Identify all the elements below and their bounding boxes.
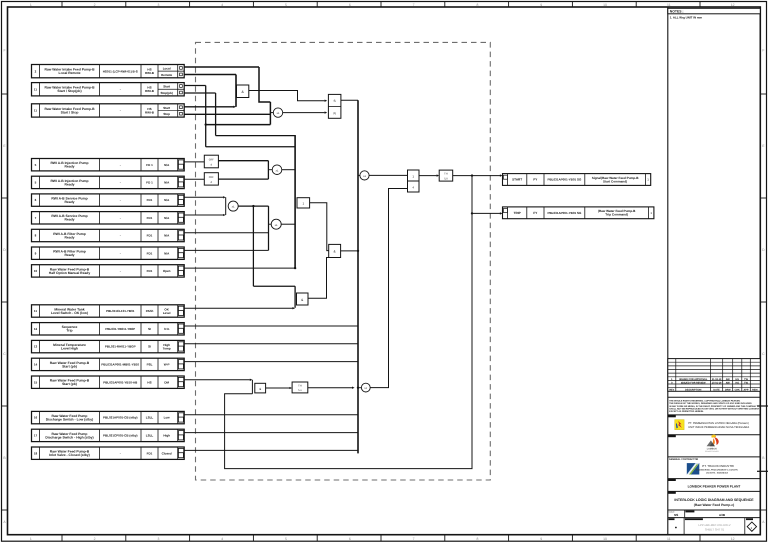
svg-text:EXCEPT AS PERMITTED HEREIN.: EXCEPT AS PERMITTED HEREIN. bbox=[669, 410, 704, 413]
svg-text:Open: Open bbox=[163, 269, 171, 273]
svg-text:LPP-LBK-MET-ICD-DW-V: LPP-LBK-MET-ICD-DW-V bbox=[698, 523, 730, 527]
wire bracket into OR U7 bbox=[268, 206, 270, 250]
svg-text:18: 18 bbox=[34, 451, 38, 455]
wire bracket into OR U6 bbox=[225, 197, 227, 215]
arrowhead R input bbox=[325, 111, 328, 113]
svg-text:12: 12 bbox=[731, 3, 735, 7]
svg-text:3: 3 bbox=[157, 537, 159, 541]
input block row1: RWI pump-B local/remote selector bbox=[32, 65, 185, 78]
svg-text:-: - bbox=[120, 181, 121, 185]
input block row8: filter pump A ready bbox=[32, 229, 185, 241]
wire stub into OR U13 bbox=[358, 174, 360, 176]
svg-text:OFF: OFF bbox=[209, 158, 215, 161]
svg-text:-: - bbox=[120, 216, 121, 220]
svg-text:Discharge Switch - Low (stby): Discharge Switch - Low (stby) bbox=[46, 418, 94, 422]
svg-text:PBL031AP001-YB10-AB: PBL031AP001-YB10-AB bbox=[103, 380, 138, 384]
svg-text:REM: REM bbox=[752, 389, 757, 392]
svg-text:N/A: N/A bbox=[164, 181, 170, 185]
vertical rail R1 lower segment bbox=[294, 286, 296, 308]
svg-text:Start Command): Start Command) bbox=[603, 179, 627, 183]
wire T1 out bbox=[218, 160, 268, 162]
wire into trip command block bbox=[472, 212, 500, 214]
svg-text:LSLL: LSLL bbox=[146, 434, 154, 438]
arrowhead row15 bbox=[250, 379, 253, 381]
svg-text:8: 8 bbox=[476, 3, 478, 7]
svg-text:3: 3 bbox=[157, 3, 159, 7]
svg-text:15-01-19: 15-01-19 bbox=[712, 382, 722, 385]
project box bbox=[668, 479, 761, 489]
svg-text:LOMBOK PEAKER POWER PLANT: LOMBOK PEAKER POWER PLANT bbox=[688, 484, 741, 488]
svg-text:Remote: Remote bbox=[161, 73, 172, 77]
notes header bar bbox=[668, 8, 761, 14]
svg-text:Start / Stop: Start / Stop bbox=[61, 110, 79, 114]
svg-text:PBL031CP001-CB (stby): PBL031CP001-CB (stby) bbox=[103, 434, 138, 438]
input block row9: filter pump B ready bbox=[32, 247, 185, 259]
svg-text:TH: TH bbox=[298, 384, 302, 387]
wire row8 to bracket bbox=[184, 232, 269, 234]
svg-text:FD1: FD1 bbox=[147, 251, 153, 255]
wire row13 to rail R2 bbox=[184, 343, 358, 345]
input block row11: mineral water tank level OK bbox=[32, 305, 185, 317]
svg-text:Start (pb): Start (pb) bbox=[62, 364, 77, 368]
OR gate U13 bbox=[360, 171, 369, 180]
wire into rail R1 lower segment bbox=[253, 285, 295, 287]
svg-text:OFF: OFF bbox=[209, 176, 215, 179]
svg-text:PSL: PSL bbox=[147, 363, 153, 367]
svg-text:Stop: Stop bbox=[163, 112, 170, 116]
svg-text:11: 11 bbox=[34, 309, 38, 313]
on-delay timer T3 bbox=[292, 382, 308, 393]
AND gate U8 bbox=[297, 293, 309, 305]
left/right border ruler ticks bbox=[2, 93, 8, 95]
svg-text:17: 17 bbox=[34, 434, 38, 438]
svg-text:FD1: FD1 bbox=[147, 234, 153, 238]
wire row18 to rail R2 bbox=[184, 449, 358, 451]
input block row13: temperature high bbox=[32, 340, 185, 352]
svg-text:1. ALL Wrg UNIT IN mm: 1. ALL Wrg UNIT IN mm bbox=[670, 15, 703, 19]
svg-text:Ready: Ready bbox=[64, 235, 74, 239]
svg-text:IN ANY FORM OR MEDIA, IS THE R: IN ANY FORM OR MEDIA, IS THE RIGHT, PROP… bbox=[669, 405, 757, 408]
svg-text:CHK: CHK bbox=[735, 389, 740, 392]
wire stub U7 bbox=[269, 223, 272, 225]
svg-text:-: - bbox=[120, 269, 121, 273]
svg-text:Start / Stop(pb): Start / Stop(pb) bbox=[57, 89, 81, 93]
svg-text:ISSUED FOR REVIEW: ISSUED FOR REVIEW bbox=[681, 382, 706, 385]
svg-text:PT. TRACON INDUSTRI: PT. TRACON INDUSTRI bbox=[702, 464, 734, 468]
wire row7 bbox=[184, 214, 223, 216]
svg-text:15: 15 bbox=[34, 380, 38, 384]
svg-text:11: 11 bbox=[34, 87, 38, 91]
junction node feedback tap bbox=[471, 174, 473, 176]
input block row4: injection pump A ready bbox=[32, 159, 185, 171]
svg-text:HS: HS bbox=[736, 382, 740, 385]
svg-text:PBL031-RH011-YBGP: PBL031-RH011-YBGP bbox=[105, 345, 136, 349]
svg-text:9: 9 bbox=[540, 3, 542, 7]
svg-text:N/A: N/A bbox=[164, 198, 170, 202]
svg-text:Local: Local bbox=[163, 67, 171, 71]
svg-text:-: - bbox=[120, 234, 121, 238]
input block row14: feed pump-B start pb bbox=[32, 358, 185, 370]
svg-text:Start: Start bbox=[163, 85, 170, 89]
svg-text:NS: NS bbox=[674, 513, 678, 517]
svg-text:(Raw Water Feed Pump-c): (Raw Water Feed Pump-c) bbox=[694, 503, 735, 507]
svg-text:11: 11 bbox=[667, 537, 671, 541]
svg-text:INTERLOCK LOGIC DIAGRAM AND SE: INTERLOCK LOGIC DIAGRAM AND SEQUENCE bbox=[674, 498, 754, 502]
wire row17 to rail R2 bbox=[184, 432, 358, 434]
OR gate U5 bbox=[272, 165, 282, 175]
wire row2 stop bbox=[184, 92, 216, 94]
arrowhead S input bbox=[325, 100, 328, 102]
wire stub into OR U3 bbox=[270, 112, 273, 114]
wire vertical rail VR1 bbox=[269, 102, 271, 125]
svg-text:Level: Level bbox=[163, 311, 171, 315]
off-delay timer T2 bbox=[204, 173, 218, 185]
svg-text:2: 2 bbox=[94, 537, 96, 541]
svg-text:Discharge Switch - High (stby): Discharge Switch - High (stby) bbox=[45, 435, 93, 439]
svg-text:Level Switch - OK (low): Level Switch - OK (low) bbox=[51, 311, 88, 315]
wire corner down to OR-gate rail bbox=[259, 67, 270, 102]
svg-text:12: 12 bbox=[34, 327, 38, 331]
svg-text:F: F bbox=[762, 49, 764, 53]
svg-text:HS: HS bbox=[736, 378, 740, 381]
svg-text:PBL011CL101-YB01: PBL011CL101-YB01 bbox=[106, 309, 135, 313]
svg-text:N/A: N/A bbox=[164, 234, 170, 238]
wire U12 output up to counter 4 input bbox=[370, 189, 407, 388]
wire stub U5 bbox=[268, 169, 272, 171]
svg-text:12: 12 bbox=[731, 537, 735, 541]
wire row4 into T1 bbox=[184, 161, 204, 163]
svg-text:Start (pb): Start (pb) bbox=[62, 382, 77, 386]
svg-text:16: 16 bbox=[34, 416, 38, 420]
svg-text:DM: DM bbox=[164, 380, 169, 384]
svg-text:F: F bbox=[3, 49, 5, 53]
svg-text:SHALL NOT BE REPRODUCED IN ANY: SHALL NOT BE REPRODUCED IN ANY WAY, OR I… bbox=[669, 407, 759, 410]
svg-text:4: 4 bbox=[221, 3, 223, 7]
dashed DCS cabinet boundary bbox=[196, 42, 491, 480]
junction node rail R1 end bbox=[294, 267, 296, 269]
svg-text:-: - bbox=[120, 251, 121, 255]
junction node rail R2 / OR U12 bbox=[357, 387, 359, 389]
svg-text:Level High: Level High bbox=[61, 347, 78, 351]
SR flip-flop U4 bbox=[328, 94, 341, 118]
svg-text:7: 7 bbox=[413, 3, 415, 7]
svg-text:9: 9 bbox=[540, 537, 542, 541]
svg-text:TRIP: TRIP bbox=[514, 211, 521, 215]
svg-text:7: 7 bbox=[413, 537, 415, 541]
svg-text:JAKARTA - INDONESIA: JAKARTA - INDONESIA bbox=[706, 471, 729, 474]
svg-text:PBL031AP001-YB01 SG: PBL031AP001-YB01 SG bbox=[547, 211, 582, 215]
wire U5 output to rail R1 bbox=[282, 169, 295, 171]
OR gate U12 bbox=[361, 383, 370, 392]
svg-text:RWI-B: RWI-B bbox=[145, 89, 155, 93]
vertical rail R1 upper segment bbox=[294, 136, 296, 269]
svg-text:Low: Low bbox=[164, 416, 171, 420]
svg-text:6: 6 bbox=[349, 3, 351, 7]
svg-text:4: 4 bbox=[221, 537, 223, 541]
svg-text:10: 10 bbox=[34, 269, 38, 273]
wire U9 output to AND U10 bbox=[310, 203, 329, 251]
svg-text:Half Option Manual Ready: Half Option Manual Ready bbox=[49, 271, 91, 275]
input block row7: service pump B ready bbox=[32, 212, 185, 224]
wire row6 bbox=[184, 196, 223, 198]
svg-text:FD 1: FD 1 bbox=[146, 181, 153, 185]
svg-text:N/A: N/A bbox=[164, 216, 170, 220]
svg-text:HS: HS bbox=[147, 380, 151, 384]
svg-text:-: - bbox=[120, 109, 121, 113]
wire U3 output to flipflop R input bbox=[283, 112, 325, 114]
svg-text:Ready: Ready bbox=[64, 182, 74, 186]
svg-text:5: 5 bbox=[285, 537, 287, 541]
output block: raw water feed pump-B start command bbox=[503, 174, 651, 186]
wire row5 into T2 bbox=[184, 178, 204, 180]
svg-text:-: - bbox=[120, 451, 121, 455]
AND gate U10 bbox=[329, 244, 341, 257]
wire row14 to rail R2 bbox=[184, 361, 358, 363]
svg-text:Local Remote: Local Remote bbox=[59, 71, 81, 75]
input block row3: RWI pump-B start/stop bbox=[32, 104, 185, 117]
wire down to trip output bbox=[471, 176, 473, 214]
svg-text:10: 10 bbox=[603, 3, 607, 7]
input block row15: feed pump-B start permissive bbox=[32, 376, 185, 388]
svg-text:PBL031-YB011-YB0P: PBL031-YB011-YB0P bbox=[105, 327, 135, 331]
arrowhead rail junction bbox=[352, 387, 355, 389]
wire row1 local-remote to node bbox=[184, 66, 259, 68]
svg-text:SI: SI bbox=[148, 345, 151, 349]
junction node rail R2 / U10 bbox=[357, 250, 359, 252]
svg-text:START: START bbox=[512, 178, 522, 182]
AND gate U1 bbox=[237, 85, 249, 98]
scale row bbox=[668, 510, 761, 518]
svg-text:5: 5 bbox=[285, 3, 287, 7]
svg-text:PBL031AP001-CB (stby): PBL031AP001-CB (stby) bbox=[103, 416, 138, 420]
wire counter to timer T4 bbox=[419, 175, 437, 177]
svg-text:0-%: 0-% bbox=[164, 327, 170, 331]
svg-text:THE DESIGN OF THE WORKS, DRAWI: THE DESIGN OF THE WORKS, DRAWINGS AND SP… bbox=[669, 402, 752, 405]
svg-text:10: 10 bbox=[603, 537, 607, 541]
svg-text:NOTES :: NOTES : bbox=[670, 10, 684, 14]
wire bracket into AND U11 bbox=[251, 380, 253, 394]
wire h136 to rail R1 top bbox=[216, 135, 296, 137]
svg-text:11: 11 bbox=[34, 109, 38, 113]
svg-text:21-02-19: 21-02-19 bbox=[712, 378, 722, 381]
svg-text:FD 1: FD 1 bbox=[146, 163, 153, 167]
revision table bbox=[668, 359, 761, 392]
arrowhead row7 bbox=[223, 214, 226, 216]
svg-text:GENERAL CONTRACTOR: GENERAL CONTRACTOR bbox=[669, 458, 699, 461]
wire down from junction to AND U8 bbox=[252, 206, 254, 286]
svg-text:&: & bbox=[259, 387, 261, 391]
wire U6 output bbox=[238, 205, 268, 207]
svg-text:Trip Command): Trip Command) bbox=[605, 213, 628, 217]
svg-text:13: 13 bbox=[34, 345, 38, 349]
svg-text:RWI-B: RWI-B bbox=[145, 110, 155, 114]
svg-text:5,0: 5,0 bbox=[444, 177, 448, 180]
AND gate U9 bbox=[297, 198, 310, 208]
svg-text:Closed: Closed bbox=[162, 451, 172, 455]
output block: raw water feed pump-B trip command bbox=[503, 207, 654, 219]
wire T4 output to start command block bbox=[453, 175, 500, 177]
svg-text:ISSUED FOR APPROVAL: ISSUED FOR APPROVAL bbox=[679, 378, 708, 381]
input block row2: RWI pump-B start/stop pushbutton bbox=[32, 83, 185, 96]
wire vertical rail VR3 bbox=[205, 86, 207, 147]
svg-text:8: 8 bbox=[476, 537, 478, 541]
input block row6: service pump A ready bbox=[32, 194, 185, 206]
wire feedback loop to AND U11 bbox=[225, 213, 472, 468]
wire U7 output to rail R1 bbox=[281, 223, 295, 225]
wire row11 to rail R1 bottom bbox=[184, 307, 293, 309]
svg-text:PBL031AP001-YB01 SG: PBL031AP001-YB01 SG bbox=[547, 178, 582, 182]
svg-text:PAhh: PAhh bbox=[146, 309, 154, 313]
svg-text:Ready: Ready bbox=[64, 200, 74, 204]
svg-text:REV: REV bbox=[669, 389, 674, 392]
wire U13 output to counter bbox=[369, 174, 407, 176]
svg-text:FD1: FD1 bbox=[147, 451, 153, 455]
svg-text:A3B: A3B bbox=[719, 513, 726, 517]
svg-text:PT. PEMBANGKITAN LISTRIK NEGA: PT. PEMBANGKITAN LISTRIK NEGARA (Persero… bbox=[688, 422, 749, 425]
svg-text:1: 1 bbox=[30, 537, 32, 541]
OR gate U3 bbox=[273, 108, 282, 117]
svg-text:1: 1 bbox=[30, 3, 32, 7]
wire U10 output to rail R2 bbox=[341, 250, 358, 252]
svg-text:-: - bbox=[120, 198, 121, 202]
svg-text:Ready: Ready bbox=[64, 218, 74, 222]
svg-text:TH: TH bbox=[444, 173, 448, 176]
wire T2 out bbox=[218, 178, 268, 180]
svg-text:DATE: DATE bbox=[713, 389, 720, 392]
drawing number row bbox=[668, 518, 761, 535]
top/bottom border ruler ticks bbox=[61, 2, 63, 8]
owner box with PLN logo bbox=[668, 415, 761, 430]
svg-text:SI: SI bbox=[148, 327, 151, 331]
svg-text:PBL031AP001-MB01-YB10: PBL031AP001-MB01-YB10 bbox=[101, 363, 139, 367]
input block row18: inlet valve closed bbox=[32, 447, 185, 459]
arrowhead output row1 bbox=[500, 174, 503, 176]
wire row2 start bbox=[184, 85, 206, 87]
input block row16: discharge pressure low bbox=[32, 411, 185, 423]
svg-text:Start: Start bbox=[163, 106, 170, 110]
wire h124 to VR1 bbox=[206, 124, 271, 126]
wire vertical rail VR4 bbox=[215, 93, 217, 136]
svg-text:6: 6 bbox=[349, 537, 351, 541]
svg-text:ENGINEERING, PROCUREMENT & CON: ENGINEERING, PROCUREMENT & CONSTR. bbox=[696, 469, 739, 472]
svg-text:FD1: FD1 bbox=[147, 198, 153, 202]
arrowhead output row2 bbox=[500, 212, 503, 214]
svg-text:LSLL: LSLL bbox=[146, 416, 154, 420]
svg-text:LOMBOK: LOMBOK bbox=[707, 447, 718, 450]
drawing title box bbox=[668, 491, 761, 507]
svg-text:UNIT INDUK PEMBANGUNAN NUSA TE: UNIT INDUK PEMBANGUNAN NUSA TENGGARA bbox=[688, 426, 749, 429]
input block row5: injection pump B ready bbox=[32, 176, 185, 188]
OR gate U7 bbox=[271, 219, 281, 229]
svg-text:Ready: Ready bbox=[64, 165, 74, 169]
arrowhead T4 input bbox=[437, 174, 440, 176]
title block general notes paragraph bbox=[668, 397, 761, 413]
svg-text:HS011 (LCP-RWI-01) B-S: HS011 (LCP-RWI-01) B-S bbox=[103, 69, 138, 73]
svg-text:DRW: DRW bbox=[725, 389, 731, 392]
svg-text:FD1: FD1 bbox=[147, 216, 153, 220]
wire vertical rail VR2 into AND U1 bbox=[235, 75, 237, 107]
wire row15 to AND U11 bbox=[184, 379, 250, 381]
svg-text:PEAKER POWER: PEAKER POWER bbox=[705, 450, 719, 453]
svg-text:Stop(pb): Stop(pb) bbox=[160, 91, 172, 95]
wire U8 output up to AND U10 bbox=[308, 258, 330, 299]
counter block bottom cell 4 bbox=[408, 181, 420, 192]
wire T3 out to rail R2 bbox=[308, 387, 352, 389]
consultant box with flame logo bbox=[668, 435, 761, 454]
right edge fold mark lower bbox=[757, 470, 768, 472]
svg-text:Trip: Trip bbox=[66, 329, 72, 333]
AND gate U11 bbox=[255, 383, 266, 393]
general contractor box with TRACON logo bbox=[668, 457, 761, 475]
title block strip left border bbox=[667, 7, 669, 535]
svg-text:Temp: Temp bbox=[163, 347, 171, 351]
wire h147 into rail R1 bbox=[206, 146, 295, 148]
svg-text:2: 2 bbox=[94, 3, 96, 7]
svg-text:14: 14 bbox=[34, 363, 38, 367]
wire row12 to rail R2 bbox=[184, 325, 358, 327]
arrowhead row6 bbox=[223, 196, 226, 198]
svg-text:-: - bbox=[120, 163, 121, 167]
svg-text:RWI-B: RWI-B bbox=[145, 71, 155, 75]
on-delay timer T4 bbox=[439, 170, 453, 181]
right edge fold mark upper bbox=[757, 405, 768, 407]
svg-text:Ready: Ready bbox=[64, 253, 74, 257]
svg-text:Inlet Valve - Closed (stby): Inlet Valve - Closed (stby) bbox=[49, 453, 90, 457]
wire U1 output to flipflop S input bbox=[249, 91, 325, 101]
svg-text:THE WHOLE RIGHTS RESERVED. COP: THE WHOLE RIGHTS RESERVED. COPYRIGHT(C) … bbox=[669, 400, 740, 403]
arrowhead T3 input bbox=[290, 387, 293, 389]
wire row9 to bracket bbox=[184, 249, 269, 251]
svg-text:N/A: N/A bbox=[164, 163, 170, 167]
wire U4 output to main rail R2 bbox=[341, 99, 358, 101]
counter block top cell 1 bbox=[408, 170, 420, 181]
off-delay timer T1 bbox=[204, 155, 218, 168]
wire U11 out to timer T3 bbox=[266, 387, 290, 389]
junction node trip branch bbox=[471, 212, 473, 214]
wire row16 to rail R2 bbox=[184, 414, 358, 416]
svg-text:-: - bbox=[120, 87, 121, 91]
junction node U6 output bbox=[252, 205, 254, 207]
svg-text:N/A: N/A bbox=[164, 251, 170, 255]
main vertical rail R2 bbox=[357, 100, 359, 453]
wire bracket into OR U5 bbox=[267, 161, 269, 179]
wire row10 to rail R1 bottom bbox=[184, 267, 295, 269]
svg-text:W-P: W-P bbox=[164, 363, 170, 367]
svg-text:DESCRIPTION: DESCRIPTION bbox=[685, 389, 702, 392]
revision diamond symbol bbox=[747, 522, 756, 531]
input block row12: sequence trip bbox=[32, 323, 185, 335]
junction node VR3/h124 bbox=[205, 123, 207, 125]
arrowhead into VR2 bbox=[233, 106, 236, 108]
wire row1 remote to AND rail bbox=[184, 74, 236, 76]
arrowhead row11 into rail R1 bbox=[293, 307, 296, 309]
svg-text:S: S bbox=[334, 99, 336, 103]
wire row3 stop to VR1 bbox=[184, 113, 270, 115]
input block row17: discharge pressure high bbox=[32, 429, 185, 441]
svg-text:FD1: FD1 bbox=[147, 269, 153, 273]
svg-text:APP: APP bbox=[744, 389, 749, 392]
svg-text:High: High bbox=[163, 434, 170, 438]
wire stub into OR U12 bbox=[358, 387, 362, 389]
input block row10: feed pump-B manual ready bbox=[32, 265, 185, 277]
wire row3 start to AND rail bbox=[184, 106, 234, 108]
svg-text:SHEET SHT 01: SHEET SHT 01 bbox=[705, 528, 725, 532]
svg-text:11: 11 bbox=[667, 3, 671, 7]
OR gate U6 bbox=[228, 201, 238, 211]
